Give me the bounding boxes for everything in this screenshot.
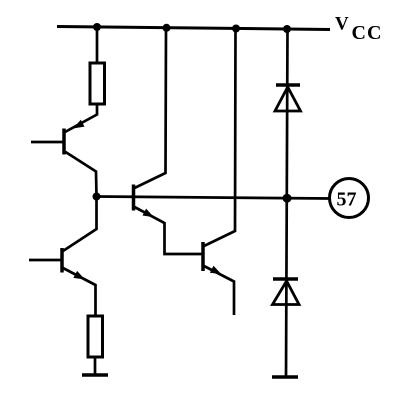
label VCC — [335, 14, 382, 45]
diode D1 triangle — [275, 87, 301, 111]
wire rail to R1 — [96, 27, 99, 64]
transistor Q2 (NPN) emitter arrow — [143, 209, 155, 218]
wire Q2 emitter to Q4 base — [135, 207, 203, 254]
wire Q2 collector to rail — [135, 28, 167, 188]
wire diode branch vertical (rail to bottom bar) — [286, 28, 288, 377]
transistor Q1 (PNP) base bar — [62, 129, 66, 155]
wire Q1 collector to node E — [64, 151, 97, 197]
transistor Q3 (NPN) base bar — [60, 248, 64, 273]
wire R1 to Q1 emitter — [65, 104, 97, 132]
wire output line to pin circle — [97, 197, 330, 199]
wire node E down to Q3 collector — [63, 197, 97, 252]
transistor Q2 (NPN) base bar — [132, 185, 136, 211]
transistor Q1 (PNP) emitter arrow — [73, 120, 85, 129]
resistor R1 — [90, 63, 105, 104]
diode D1 cathode bar — [276, 83, 300, 87]
diode D2 cathode bar — [273, 277, 298, 281]
diode D2 triangle — [273, 281, 300, 305]
svg-text:V: V — [335, 14, 349, 35]
node junction dot B (rail / Q2 collector) — [163, 24, 171, 32]
pin pad circle 57 — [330, 179, 369, 218]
ground bar (right, diode branch termination) — [272, 375, 298, 379]
node junction dot C (rail / Q4 collector) — [232, 25, 240, 33]
wire VCC power rail — [57, 27, 330, 30]
wire Q1 base lead — [31, 141, 64, 144]
wire Q4 emitter stub — [204, 266, 234, 315]
resistor R2 — [88, 316, 103, 357]
ground bar (left) — [82, 373, 108, 377]
wire Q4 collector to rail (crosses output line, no dot) — [204, 29, 236, 247]
node junction dot D (rail / diode line) — [283, 25, 291, 33]
node junction dot A (rail / R1 branch) — [93, 23, 101, 31]
transistor Q4 (NPN) base bar — [201, 242, 205, 271]
wire R2 to ground — [94, 357, 97, 375]
node junction dot E (Q1 collector / output line) — [93, 193, 101, 201]
transistor Q4 (NPN) emitter arrow — [210, 266, 222, 275]
svg-text:CC: CC — [352, 22, 383, 44]
node junction dot F (output line / diode line) — [283, 194, 292, 203]
transistor Q3 (NPN) emitter arrow — [73, 271, 85, 280]
svg-text:57: 57 — [337, 189, 357, 211]
wire Q3 base lead — [29, 259, 62, 262]
wire Q3 emitter to R2 — [63, 268, 96, 317]
